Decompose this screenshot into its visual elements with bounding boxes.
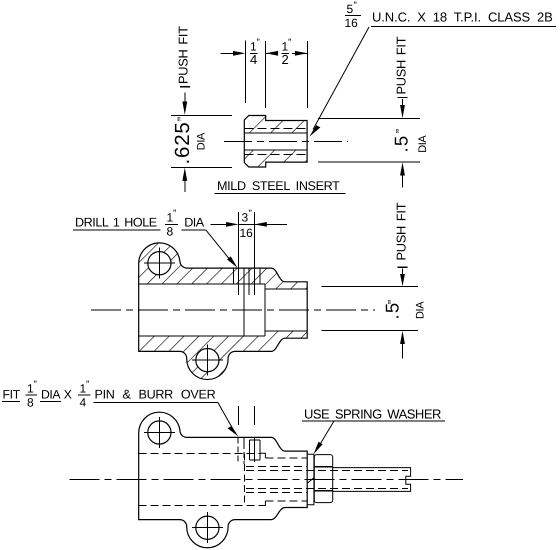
extension line x=307.3: [306, 41, 308, 108]
DRILL 1 HOLE underline: [73, 229, 161, 231]
ext line .625 bottom: [171, 166, 232, 168]
pin hole wall right short: [259, 268, 261, 284]
svg-text:”: ”: [86, 380, 89, 391]
pin body right: [259, 440, 261, 460]
svg-text:”: ”: [34, 380, 37, 391]
MILD STEEL INSERT underline: [214, 192, 345, 194]
DIA underline bottom: [40, 400, 61, 402]
1/4 fraction bottom: [80, 380, 90, 410]
pin body left: [249, 440, 251, 460]
left PUSH FIT tick: [180, 86, 190, 88]
insert seat vertical: [243, 268, 245, 336]
svg-text:PIN & BURR OVER: PIN & BURR OVER: [95, 388, 216, 402]
1/4 bar bottom: [78, 394, 90, 396]
svg-text:4: 4: [250, 52, 257, 67]
USE SPRING WASHER underline: [302, 420, 445, 422]
1/8 bar bottom: [26, 394, 38, 396]
svg-text:”: ”: [288, 38, 291, 49]
svg-text:DIA: DIA: [417, 135, 429, 153]
bottom lobe hole cross: [192, 345, 223, 376]
svg-text:DIA: DIA: [41, 388, 61, 402]
dim 1/2 fraction bar: [281, 52, 289, 54]
pin hole wall left short: [232, 268, 234, 284]
pin projection line left: [238, 406, 240, 425]
ext line .625 top: [171, 115, 232, 117]
dim 1/4 fraction bar: [250, 52, 258, 54]
bore end vertical: [264, 284, 266, 336]
mid right arrow up: [400, 331, 405, 359]
svg-text:”: ”: [393, 129, 408, 133]
5/16 fraction bar: [345, 15, 361, 17]
top lobe hole: [148, 252, 171, 275]
assembly top lobe hole: [148, 421, 171, 444]
mid PUSH FIT tick: [398, 266, 408, 268]
.625 bottom arrow up: [182, 168, 187, 192]
.625 DIA label: [171, 117, 208, 165]
flange step bottom solid: [259, 501, 265, 506]
3/16 fraction bar: [239, 223, 255, 225]
top lobe hole cross: [144, 248, 175, 279]
1/8 fraction bottom: [27, 380, 37, 410]
hidden thread major bottom: [246, 491, 307, 493]
svg-text:8: 8: [27, 396, 34, 410]
pin hole ext left: [238, 212, 240, 295]
insert thread major dashed top: [244, 127, 307, 129]
svg-text:FIT: FIT: [3, 388, 21, 402]
extension line x=245.4 for 1/4 dim: [244, 41, 246, 104]
svg-text:”: ”: [175, 117, 190, 121]
1/8 fraction bar: [165, 223, 178, 225]
svg-text:DIA: DIA: [196, 132, 208, 150]
housing center line: [91, 309, 375, 311]
leader to pin: [218, 402, 239, 436]
hex nut face line top: [314, 466, 332, 468]
left PUSH FIT arrow down: [182, 93, 187, 115]
dim 1/4 left arrow: [221, 51, 246, 56]
svg-text:”: ”: [173, 209, 176, 220]
hidden bore bottom: [139, 505, 260, 507]
assembly bottom lobe hole cross: [192, 512, 223, 543]
hidden bore top: [139, 452, 260, 454]
svg-text:.5: .5: [391, 135, 412, 153]
assembly center line: [70, 478, 463, 480]
housing outline: [139, 243, 308, 380]
assembly bottom lobe hole: [196, 516, 219, 539]
dim 1/4 text: [250, 38, 260, 68]
insert bore line top: [244, 132, 307, 134]
svg-text:DIA: DIA: [184, 216, 204, 230]
pin projection line right: [253, 406, 255, 425]
pin hole wall mid: [248, 268, 250, 295]
hidden spigot top: [265, 457, 307, 459]
svg-text:X: X: [64, 388, 72, 402]
svg-text:PUSH FIT: PUSH FIT: [394, 36, 409, 94]
svg-text:16: 16: [345, 16, 359, 30]
hidden thread major top: [246, 466, 307, 468]
svg-text:DRILL 1 HOLE: DRILL 1 HOLE: [75, 216, 157, 230]
dim 3/16 right arrow: [254, 222, 287, 227]
svg-text:8: 8: [167, 225, 174, 239]
hidden spigot bottom: [265, 500, 307, 502]
dim 3/16 left arrow: [211, 222, 239, 227]
extension line x=265.7: [265, 41, 267, 108]
FIT underline: [2, 400, 20, 402]
pin hidden wall left: [237, 437, 239, 463]
spring washer: [308, 454, 314, 504]
svg-text:MILD STEEL INSERT: MILD STEEL INSERT: [217, 179, 340, 193]
1/8 fraction: [167, 209, 177, 239]
svg-text:16: 16: [240, 226, 254, 240]
nose hole bottom line: [265, 330, 307, 332]
mid PUSH FIT arrow down: [400, 269, 405, 287]
right ext line .5 bottom: [318, 161, 420, 163]
svg-text:PUSH FIT: PUSH FIT: [394, 202, 409, 260]
insert thread major dashed bottom: [244, 153, 307, 155]
svg-text:U.N.C. X 18 T.P.I. CLASS 2B: U.N.C. X 18 T.P.I. CLASS 2B: [372, 10, 553, 25]
threaded shaft: [333, 468, 411, 492]
pin hidden wall mid: [243, 443, 245, 464]
right PUSH FIT arrow down: [400, 99, 405, 118]
svg-text:.625: .625: [171, 121, 194, 164]
mid right ext line bottom: [322, 330, 419, 332]
svg-text:”: ”: [257, 38, 260, 49]
svg-text:DIA: DIA: [415, 301, 427, 319]
mid right ext line top: [322, 286, 419, 288]
bore bottom line: [139, 335, 265, 337]
svg-text:5: 5: [347, 2, 354, 16]
svg-text:”: ”: [354, 1, 357, 12]
svg-text:2: 2: [282, 52, 289, 67]
hidden thread minor bottom: [246, 488, 408, 490]
leader to pin hole: [206, 230, 238, 268]
svg-text:USE SPRING WASHER: USE SPRING WASHER: [304, 407, 441, 422]
pin wall right solid: [253, 437, 255, 462]
hidden thread minor top: [246, 469, 408, 471]
svg-text:PUSH FIT: PUSH FIT: [176, 26, 191, 84]
right .5 bottom arrow up: [400, 162, 405, 187]
svg-text:”: ”: [249, 209, 252, 220]
mid .5 DIA label: [381, 300, 426, 320]
hidden insert left face: [244, 453, 246, 505]
assembly housing outline: [139, 412, 308, 548]
hex nut: [314, 455, 332, 503]
right PUSH FIT tick: [398, 97, 408, 99]
nose hole top line: [265, 288, 307, 290]
insert center line: [224, 140, 348, 142]
bottom lobe hole: [196, 349, 219, 372]
DIA underline: [181, 229, 205, 231]
flange step top solid: [259, 453, 265, 458]
pin bottom: [250, 459, 261, 461]
assembly top lobe hole cross: [144, 417, 175, 448]
dim 1/2 right arrow: [292, 51, 307, 56]
pin stub solid: [243, 437, 245, 443]
dim 1/2 text: [282, 38, 292, 68]
right ext line .5 top: [318, 118, 420, 120]
svg-text:4: 4: [80, 396, 87, 410]
svg-text:3: 3: [242, 211, 249, 225]
spring washer split: [308, 478, 314, 483]
svg-text:”: ”: [385, 300, 400, 304]
housing hatching: [135, 238, 311, 385]
leader from note to insert thread: [309, 27, 369, 137]
PIN & BURR OVER underline: [94, 401, 218, 403]
bore top line: [139, 283, 265, 285]
pin top: [250, 439, 261, 441]
pin hole ext right: [253, 212, 255, 295]
dim 1/2 left arrow (pointing left): [266, 51, 278, 56]
leader to washer: [314, 421, 335, 454]
insert hatching: [240, 110, 312, 172]
insert bore line bottom: [244, 149, 307, 151]
note underline: [371, 25, 556, 27]
.5 DIA label right: [391, 129, 430, 153]
hex nut face line bottom: [314, 490, 332, 492]
insert body outline: [244, 116, 307, 168]
3/16 fraction: [240, 209, 254, 240]
5/16 fraction: [345, 1, 359, 31]
